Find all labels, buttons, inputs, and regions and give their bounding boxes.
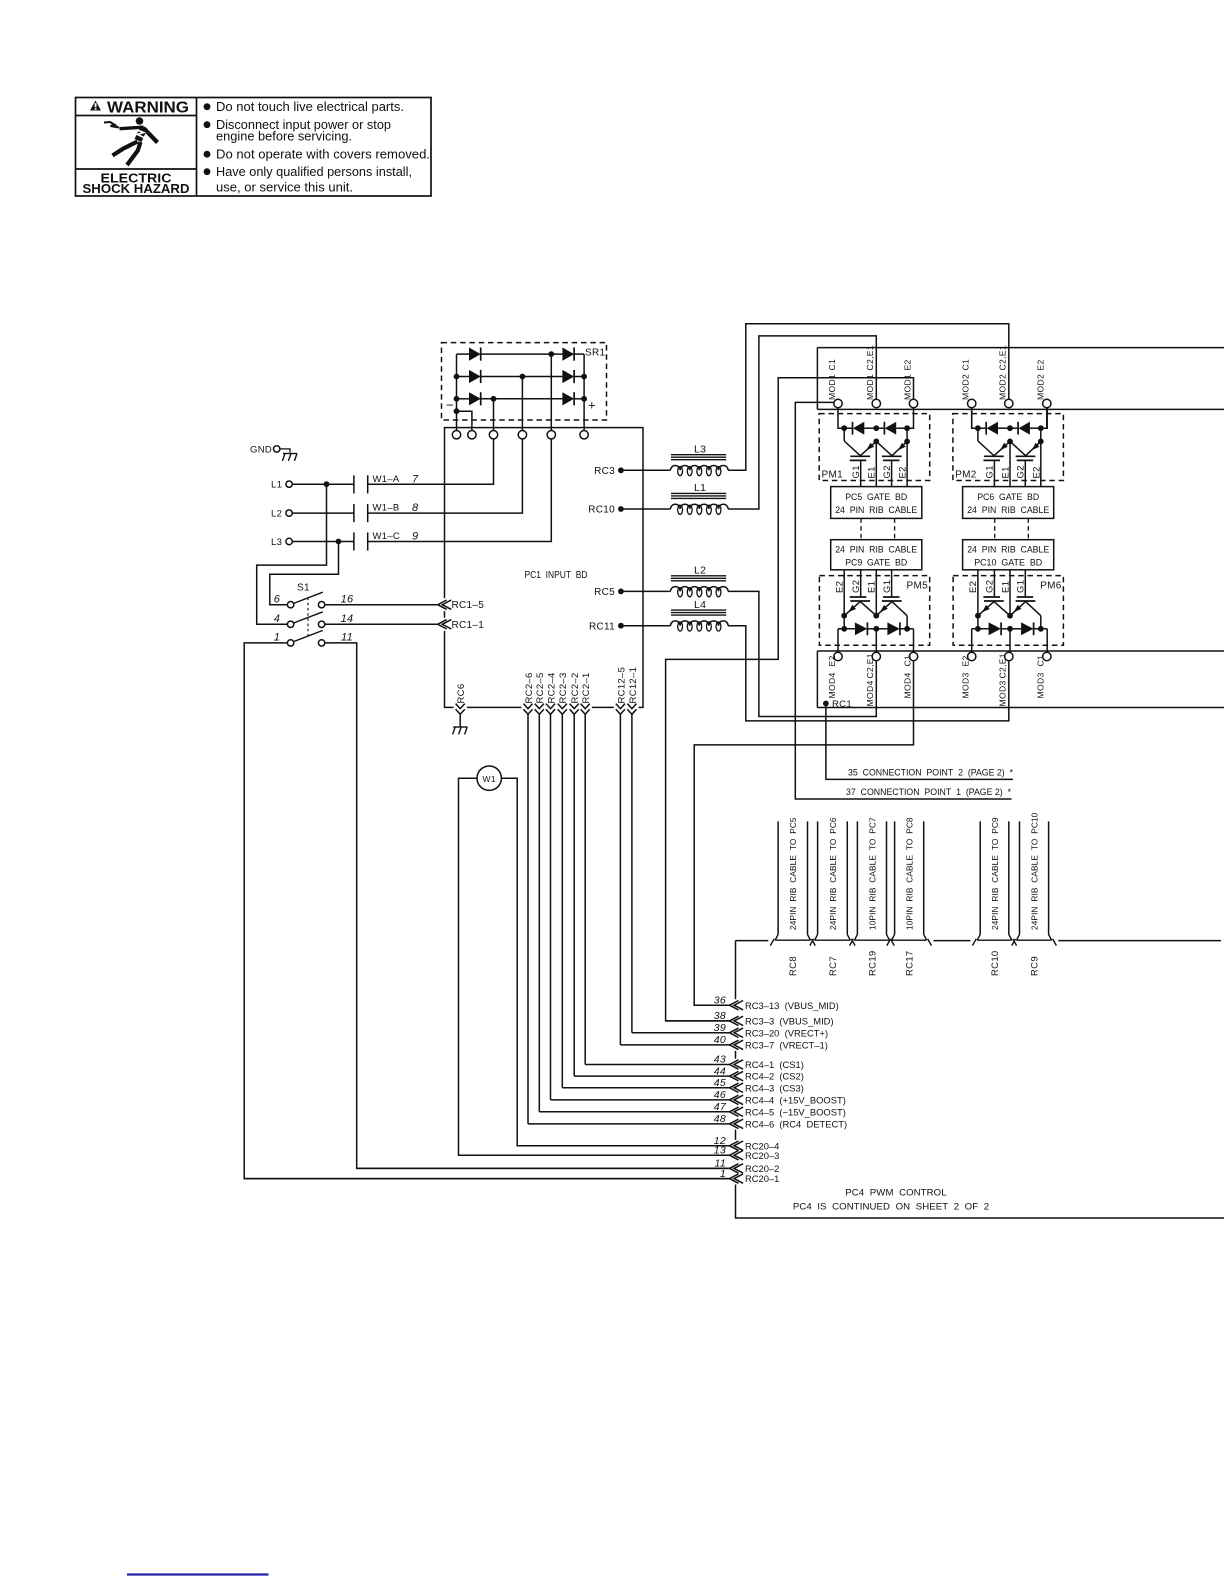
svg-text:RC4–2 (CS2): RC4–2 (CS2) — [745, 1071, 804, 1082]
svg-text:E2: E2 — [835, 581, 846, 593]
svg-text:G1: G1 — [985, 465, 996, 478]
PM1 IGBT 2 — [882, 455, 902, 457]
svg-text:RC5: RC5 — [594, 587, 615, 598]
SR1 diode row 1 right diode — [562, 348, 574, 361]
svg-text:RC4–4 (+15V_BOOST): RC4–4 (+15V_BOOST) — [745, 1095, 846, 1106]
connector RC2-5 — [533, 705, 546, 709]
svg-text:RC2–2: RC2–2 — [570, 672, 581, 703]
connector RC12-5 — [614, 705, 627, 709]
connector RC1-5 — [443, 598, 447, 611]
svg-text:RC10: RC10 — [990, 951, 1001, 977]
terminal MOD1 E2 — [909, 399, 917, 407]
connector pin 36 RC3-13 — [694, 1004, 729, 1006]
svg-text:10PIN RIB CABLE TO PC8: 10PIN RIB CABLE TO PC8 — [905, 817, 915, 930]
svg-text:G2: G2 — [851, 580, 862, 593]
ribbon cable RC9 — [1019, 821, 1021, 934]
SR1 minus branch wire — [457, 411, 472, 430]
wire RC2-3 feeder — [561, 713, 563, 1088]
PM2 junction C1 — [975, 425, 981, 431]
svg-text:C1: C1 — [902, 655, 912, 667]
connector RC2-2 — [568, 705, 581, 709]
svg-text:E2: E2 — [902, 359, 912, 370]
svg-text:11: 11 — [341, 632, 353, 644]
terminal MOD3 C1 — [1043, 652, 1051, 660]
svg-text:24PIN RIB CABLE TO PC9: 24PIN RIB CABLE TO PC9 — [990, 817, 1000, 930]
connector pin 1 RC20-1 — [244, 1178, 729, 1180]
SR1 phase C riser — [493, 399, 495, 431]
PM2 gate/emitter leads to gate board — [993, 460, 995, 486]
SR1 diode row 3 right diode — [562, 392, 574, 405]
PM6 anti-parallel diode 1 — [972, 628, 989, 630]
wire S1 pin16 to RC1-5 — [325, 604, 438, 606]
connector pin 48 RC4-6 — [528, 1123, 730, 1125]
svg-text:WARNING: WARNING — [107, 100, 189, 117]
svg-text:RC11: RC11 — [589, 621, 615, 632]
svg-text:RC3: RC3 — [594, 466, 615, 477]
connector RC1-1 — [443, 618, 447, 631]
svg-text:+: + — [588, 398, 596, 413]
ribbon cable RC8 — [777, 821, 779, 934]
ribbon link PC6 to PC10 — [994, 518, 996, 539]
svg-text:RC17: RC17 — [905, 951, 916, 977]
svg-text:14: 14 — [341, 613, 354, 625]
svg-text:G2: G2 — [882, 465, 893, 478]
wire RC2-5 feeder — [538, 713, 540, 1112]
wire W1 right to RC20-4 — [501, 778, 729, 1145]
PM1 junction E2-diode — [904, 425, 910, 431]
earth ground symbol top — [280, 449, 290, 453]
PM5 junction E1 diag — [841, 613, 847, 619]
svg-text:10PIN RIB CABLE TO PC7: 10PIN RIB CABLE TO PC7 — [867, 817, 877, 930]
svg-text:RC1–5: RC1–5 — [452, 600, 485, 611]
PM1 IGBT 1 — [850, 455, 870, 457]
PM6 junction midpoint — [1007, 613, 1013, 619]
svg-text:RC9: RC9 — [1029, 956, 1040, 976]
PM2 junction E2-diode — [1038, 425, 1044, 431]
svg-text:RC8: RC8 — [788, 956, 799, 976]
svg-text:C2,E1: C2,E1 — [998, 653, 1008, 678]
svg-text:E2: E2 — [898, 466, 909, 478]
wire MOD4 C1 to RC3-13 VBUS_MID — [694, 661, 913, 1006]
terminal MOD4 E2 — [834, 652, 842, 660]
svg-text:L3: L3 — [271, 537, 282, 548]
svg-text:G1: G1 — [1016, 580, 1027, 593]
rectifier SR1 dashed box — [442, 343, 607, 420]
svg-text:RC6: RC6 — [456, 684, 467, 704]
svg-text:24PIN RIB CABLE TO PC5: 24PIN RIB CABLE TO PC5 — [788, 817, 798, 930]
contactor contact W1-C — [353, 532, 355, 550]
footer rule — [127, 1573, 269, 1575]
svg-text:RC7: RC7 — [828, 956, 839, 976]
svg-text:RC20–3: RC20–3 — [745, 1150, 779, 1161]
connector RC3 node — [618, 467, 624, 473]
svg-text:E2: E2 — [968, 581, 979, 593]
svg-text:W1: W1 — [483, 774, 496, 784]
connector pin 39 RC3-20 — [632, 1032, 730, 1034]
ribbon cable bus to PC4 — [736, 940, 769, 942]
svg-text:RC4–1 (CS1): RC4–1 (CS1) — [745, 1059, 804, 1070]
svg-text:46: 46 — [714, 1089, 726, 1101]
connector pin 12 RC20-4 — [517, 1145, 729, 1147]
PM1 E2 entry wire — [907, 408, 913, 429]
connector RC2-6 — [521, 705, 534, 709]
PM6 junction diode1 — [975, 626, 981, 632]
svg-text:PC4 PWM CONTROL: PC4 PWM CONTROL — [845, 1188, 947, 1199]
svg-text:E2: E2 — [961, 655, 971, 666]
svg-text:E2: E2 — [1031, 466, 1042, 478]
connector RC12-1 — [625, 705, 638, 709]
svg-text:PM1: PM1 — [822, 470, 844, 481]
svg-text:45: 45 — [714, 1077, 726, 1089]
svg-text:RC1: RC1 — [832, 699, 852, 710]
svg-text:L2: L2 — [271, 509, 282, 520]
svg-text:16: 16 — [341, 593, 354, 605]
svg-text:24 PIN RIB CABLE: 24 PIN RIB CABLE — [835, 544, 917, 555]
svg-text:PC1 INPUT BD: PC1 INPUT BD — [525, 570, 588, 581]
PM5 junction diode mid — [873, 626, 879, 632]
wire L3 to contact — [292, 541, 354, 543]
connector pin 46 RC4-4 — [551, 1099, 730, 1101]
wire L2 to MOD4 C2,E1 — [728, 591, 876, 716]
PM1 gate/emitter leads to gate board — [860, 460, 862, 486]
PM2 junction E2 — [1038, 439, 1044, 445]
PM1 junction E1 — [873, 439, 879, 445]
wire W1-B to PC1 pin — [368, 439, 523, 513]
PM5 junction midpoint — [873, 613, 879, 619]
PM6 leads from gate board E2 G2 E1 G1 — [977, 570, 979, 616]
PM6 junction E1 diag — [975, 613, 981, 619]
connector RC2-4 — [544, 705, 557, 709]
node RC1 — [823, 701, 829, 707]
svg-text:RC19: RC19 — [867, 951, 878, 977]
connector pin 40 RC3-7 — [620, 1044, 729, 1046]
svg-text:1: 1 — [274, 632, 280, 644]
svg-text:L1: L1 — [271, 480, 282, 491]
svg-text:RC12–1: RC12–1 — [628, 667, 639, 704]
connector RC2-3 — [556, 705, 569, 709]
svg-text:PC9 GATE BD: PC9 GATE BD — [845, 557, 907, 568]
svg-text:1: 1 — [720, 1168, 726, 1180]
svg-text:MOD2: MOD2 — [961, 374, 971, 400]
wire RC12-5 feeder — [619, 713, 621, 1045]
svg-text:−: − — [446, 397, 454, 412]
svg-text:E2: E2 — [827, 655, 837, 666]
SR1 diode row 1 left diode — [457, 353, 470, 355]
svg-text:MOD4: MOD4 — [902, 672, 912, 698]
svg-text:MOD4: MOD4 — [865, 680, 875, 706]
junction L1 branch — [324, 481, 330, 487]
connector RC10 node — [618, 506, 624, 512]
terminal MOD4 C2,E1 — [872, 652, 880, 660]
wire MOD2 E2 into PM2 — [1046, 408, 1048, 429]
terminal MOD2 E2 — [1043, 399, 1051, 407]
board PC1 INPUT BD — [445, 428, 644, 708]
wire RC3 to L3 — [621, 469, 671, 471]
svg-text:48: 48 — [714, 1113, 726, 1125]
svg-text:G2: G2 — [1016, 465, 1027, 478]
svg-text:RC20–1: RC20–1 — [745, 1173, 779, 1184]
PM1 junction C1 — [841, 425, 847, 431]
warning header — [90, 101, 101, 111]
PM6 junction diode2 — [1038, 626, 1044, 632]
svg-text:G1: G1 — [882, 580, 893, 593]
PM6 IGBT 2 — [1017, 596, 1033, 598]
PM6 anti-parallel diode 2 — [1010, 628, 1021, 630]
PM1 anti-parallel diode 1 — [844, 427, 853, 429]
svg-text:MOD2: MOD2 — [998, 374, 1008, 400]
svg-text:PM6: PM6 — [1040, 581, 1062, 592]
svg-text:E1: E1 — [867, 581, 878, 593]
PM5 wires to module terminals — [837, 629, 839, 653]
PM2 E2 entry wire — [1041, 408, 1047, 429]
output bus upper line 2 — [817, 408, 1224, 410]
ribbon cable RC10 — [979, 821, 981, 934]
connector pin 11 RC20-2 — [357, 1167, 730, 1169]
svg-text:37 CONNECTION POINT 1 (PAG: 37 CONNECTION POINT 1 (PAGE 2) * — [846, 787, 1011, 798]
svg-text:RC3–20 (VRECT+): RC3–20 (VRECT+) — [745, 1027, 828, 1038]
PM1 junction midpoint-diode — [873, 425, 879, 431]
svg-text:E1: E1 — [867, 466, 878, 478]
svg-text:24PIN RIB CABLE TO PC6: 24PIN RIB CABLE TO PC6 — [828, 817, 838, 930]
svg-text:RC2–5: RC2–5 — [535, 672, 546, 703]
svg-text:E1: E1 — [1000, 581, 1011, 593]
svg-text:use, or service this unit.: use, or service this unit. — [216, 180, 353, 195]
warning bullet list — [204, 103, 211, 110]
terminal MOD2 C1 — [968, 399, 976, 407]
module PM1 dashed box — [819, 414, 930, 481]
SR1 diode row 1 link wire — [481, 353, 563, 355]
svg-text:C1: C1 — [961, 359, 971, 371]
SR1 left bus wire — [456, 354, 458, 430]
svg-text:C2,E1: C2,E1 — [865, 345, 875, 370]
connector pin 13 RC20-3 — [459, 1154, 730, 1156]
PM2 C1 entry wire — [972, 408, 978, 429]
PM2 IGBT 1 — [984, 455, 1004, 457]
svg-text:RC3–7 (VRECT–1): RC3–7 (VRECT–1) — [745, 1040, 828, 1051]
wire W1 left to RC20-3 — [459, 778, 730, 1155]
module PM5 dashed box — [819, 576, 929, 646]
PM1 C1 entry wire — [838, 408, 844, 429]
PM5 junction diode1 — [841, 626, 847, 632]
SR1 diode row 3 left diode — [457, 398, 470, 400]
wire RC2-1 feeder — [584, 713, 586, 1065]
svg-text:PC5 GATE BD: PC5 GATE BD — [845, 492, 907, 503]
svg-text:RC1–1: RC1–1 — [452, 620, 485, 631]
module PM2 dashed box — [953, 414, 1064, 481]
wire L4 to MOD3 C2,E1 — [728, 626, 1009, 721]
PM5 IGBT 2 — [883, 596, 900, 598]
ribbon cable RC19 — [856, 821, 858, 934]
terminal MOD1 C2,E1 — [872, 399, 880, 407]
svg-text:G1: G1 — [851, 465, 862, 478]
svg-text:L3: L3 — [694, 444, 706, 456]
svg-text:L4: L4 — [694, 599, 706, 611]
ribbon cable RC17 — [894, 821, 896, 934]
svg-text:RC4–6 (RC4 DETECT): RC4–6 (RC4 DETECT) — [745, 1119, 847, 1130]
terminal MOD3 E2 — [968, 652, 976, 660]
svg-text:Do not touch live electrical p: Do not touch live electrical parts. — [216, 99, 404, 114]
svg-text:PC6 GATE BD: PC6 GATE BD — [977, 492, 1039, 503]
svg-text:MOD3: MOD3 — [961, 672, 971, 698]
svg-text:PC10 GATE BD: PC10 GATE BD — [974, 557, 1042, 568]
wire RC12-1 feeder — [631, 713, 633, 1033]
SR1 diode row 2 left diode — [457, 376, 470, 378]
wire MOD2 C1 into PM2 — [971, 408, 973, 429]
PM6 IGBT 1 — [983, 596, 1000, 598]
svg-text:RC4–3 (CS3): RC4–3 (CS3) — [745, 1082, 804, 1093]
contactor contact W1-A — [353, 475, 355, 493]
svg-text:35 CONNECTION POINT 2 (PAG: 35 CONNECTION POINT 2 (PAGE 2) * — [848, 768, 1013, 779]
SR1 right bus junctions — [581, 374, 587, 380]
svg-text:6: 6 — [274, 593, 281, 605]
svg-text:SR1: SR1 — [585, 347, 605, 358]
svg-text:RC3–13 (VBUS_MID): RC3–13 (VBUS_MID) — [745, 1000, 839, 1011]
connector pin 38 RC3-3 — [666, 1020, 730, 1022]
svg-text:44: 44 — [714, 1065, 726, 1077]
wire S1 pin11 to RC20-2 — [325, 643, 730, 1169]
svg-text:PM2: PM2 — [955, 470, 977, 481]
svg-text:RC2–1: RC2–1 — [581, 672, 592, 703]
PM2 anti-parallel diode 2 — [1010, 427, 1018, 429]
svg-text:43: 43 — [714, 1054, 726, 1066]
wire MOD1 C1 to connection point 1 — [795, 402, 1011, 799]
SR1 diode row 2 link wire — [481, 376, 563, 378]
svg-text:Have only qualified persons in: Have only qualified persons install, — [216, 164, 412, 179]
terminal MOD3 C2,E1 — [1005, 652, 1013, 660]
SR1 diode row 3 link wire — [481, 398, 563, 400]
wire RC2-4 feeder — [550, 713, 552, 1100]
PM5 junction diode2 — [904, 626, 910, 632]
svg-text:RC10: RC10 — [588, 505, 615, 516]
svg-text:RC4–5 (−15V_BOOST): RC4–5 (−15V_BOOST) — [745, 1106, 846, 1117]
svg-text:Do not operate with covers rem: Do not operate with covers removed. — [216, 147, 430, 162]
svg-text:39: 39 — [714, 1022, 726, 1034]
svg-text:C1: C1 — [827, 359, 837, 371]
output bus upper left edge — [816, 348, 818, 410]
warning label box — [76, 98, 432, 197]
wire RC5 to L2 — [621, 590, 671, 592]
PM1 anti-parallel diode 2 — [876, 427, 884, 429]
svg-text:E1: E1 — [1000, 466, 1011, 478]
terminal MOD2 C2,E1 — [1005, 399, 1013, 407]
board PC6 GATE BD — [963, 487, 1054, 519]
connector pin 47 RC4-5 — [539, 1111, 729, 1113]
wire L2 to contact — [292, 512, 354, 514]
svg-text:MOD2: MOD2 — [1036, 374, 1046, 400]
SR1 diode row 2 right diode — [562, 370, 574, 383]
svg-text:GND: GND — [250, 444, 272, 455]
svg-text:38: 38 — [714, 1010, 726, 1022]
electric shock icon — [104, 117, 158, 165]
ribbon cable RC7 — [817, 821, 819, 934]
wire RC2-6 feeder — [527, 713, 529, 1124]
PC1 terminal circles — [452, 431, 460, 439]
PM2 junction E1 — [1007, 439, 1013, 445]
svg-text:RC2–6: RC2–6 — [524, 672, 535, 703]
board PC10 GATE BD — [963, 540, 1054, 570]
terminal MOD4 C1 — [909, 652, 917, 660]
wire RC11 to L4 — [621, 625, 671, 627]
svg-text:RC2–3: RC2–3 — [558, 672, 569, 703]
contactor contact W1-B — [353, 504, 355, 522]
svg-text:PM5: PM5 — [907, 581, 929, 592]
wire S1 pin14 to RC1-1 — [325, 623, 438, 625]
module PM6 dashed box — [953, 576, 1063, 646]
connector RC2-1 — [579, 705, 592, 709]
wire L1 branch to S1 pin 4 — [257, 484, 327, 624]
wire RC10 to L1 — [621, 508, 671, 510]
PM6 wires to module terminals — [971, 629, 973, 653]
connector RC11 node — [618, 623, 624, 629]
svg-text:C2,E1: C2,E1 — [998, 345, 1008, 370]
board PC9 GATE BD — [831, 540, 922, 570]
svg-text:RC3–3 (VBUS_MID): RC3–3 (VBUS_MID) — [745, 1016, 834, 1027]
svg-text:47: 47 — [714, 1101, 727, 1113]
PM5 leads from gate board E2 G2 E1 G1 — [843, 570, 845, 616]
PC4 connector spine — [735, 941, 737, 1000]
wire MOD1 E2 to RC3-3 — [666, 378, 914, 1021]
svg-text:W1–C: W1–C — [373, 531, 401, 542]
svg-text:W1–B: W1–B — [373, 503, 400, 514]
connector pin 43 RC4-1 — [585, 1064, 729, 1066]
wire RC1 to connection point 2 — [826, 704, 1013, 780]
svg-text:G2: G2 — [985, 580, 996, 593]
svg-text:24 PIN RIB CABLE: 24 PIN RIB CABLE — [967, 544, 1049, 555]
PM5 anti-parallel diode 2 — [876, 628, 887, 630]
svg-text:MOD4: MOD4 — [827, 672, 837, 698]
SR1 phase A riser — [550, 354, 552, 430]
svg-text:L1: L1 — [694, 482, 706, 494]
board PC5 GATE BD — [831, 487, 922, 519]
PM2 junction midpoint-diode — [1007, 425, 1013, 431]
svg-text:MOD3: MOD3 — [1036, 672, 1046, 698]
svg-text:RC2–4: RC2–4 — [546, 672, 557, 703]
wire S1 pin1 to RC20-1 — [244, 643, 729, 1179]
SR1 phase B riser — [521, 377, 523, 431]
PM5 IGBT 1 — [850, 596, 867, 598]
wire L3 to MOD2 C2,E1 — [728, 324, 1009, 471]
svg-text:24PIN RIB CABLE TO PC10: 24PIN RIB CABLE TO PC10 — [1029, 812, 1039, 930]
svg-text:C1: C1 — [1036, 655, 1046, 667]
contactor coil W1 — [477, 766, 501, 790]
wire RC2-2 feeder — [573, 713, 575, 1076]
svg-text:RC12–5: RC12–5 — [616, 667, 627, 704]
terminal MOD1 C1 — [834, 399, 842, 407]
ribbon link PC5 to PC9 — [860, 518, 862, 539]
SR1 left bus junctions — [454, 374, 460, 380]
svg-text:24 PIN RIB CABLE: 24 PIN RIB CABLE — [967, 505, 1049, 516]
earth ground below RC6 — [459, 713, 461, 727]
svg-text:SHOCK HAZARD: SHOCK HAZARD — [83, 182, 190, 196]
wire L1 to MOD1 C2,E1 — [728, 336, 876, 509]
svg-text:L2: L2 — [694, 565, 706, 577]
svg-text:E2: E2 — [1036, 359, 1046, 370]
wire L3 branch to S1 pin 6 — [270, 542, 339, 605]
PM1 junction E2 — [904, 439, 910, 445]
junction L3 branch — [336, 539, 342, 545]
PM6 junction diode mid — [1007, 626, 1013, 632]
svg-text:MOD3: MOD3 — [998, 680, 1008, 706]
svg-text:4: 4 — [274, 613, 280, 625]
svg-text:C2,E1: C2,E1 — [865, 653, 875, 678]
wire W1-C to PC1 pin — [368, 439, 552, 542]
wire W1-A to PC1 pin — [368, 439, 494, 484]
svg-text:engine before servicing.: engine before servicing. — [216, 129, 352, 144]
connector pin 44 RC4-2 — [574, 1075, 729, 1077]
output bus lower box — [817, 650, 1224, 652]
SR1 right bus wire — [583, 354, 585, 430]
svg-text:PC4 IS CONTINUED ON SHEET: PC4 IS CONTINUED ON SHEET 2 OF 2 — [793, 1202, 989, 1213]
